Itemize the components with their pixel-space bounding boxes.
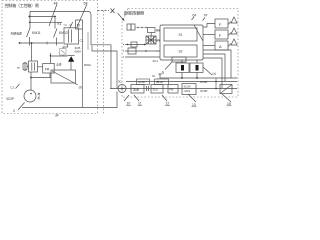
svg-text:600A: 600A xyxy=(84,63,91,67)
svg-text:3C0P: 3C0P xyxy=(6,97,14,101)
thermal relay FR xyxy=(43,63,55,73)
diode VD1 triangle xyxy=(68,56,74,62)
contact KM2 xyxy=(54,29,58,38)
terminal ticks big box left xyxy=(157,31,161,51)
node dot feed QF1 xyxy=(31,42,33,44)
svg-text:14: 14 xyxy=(212,72,216,76)
svg-text:控制箱（工控箱）侧: 控制箱（工控箱）侧 xyxy=(5,2,39,8)
svg-text:机: 机 xyxy=(38,96,41,100)
wire y56 link xyxy=(50,53,52,63)
leader diagonal ref 4 xyxy=(49,4,57,26)
transformer T1 outer xyxy=(64,28,79,44)
tick marks xyxy=(147,86,149,91)
node dot row2 xyxy=(215,88,217,90)
module drops to bus xyxy=(182,73,197,79)
svg-text:3C1: 3C1 xyxy=(153,59,159,63)
display box F3 xyxy=(215,41,228,50)
label box row1 b xyxy=(155,79,169,85)
leader diagonal ref 5 xyxy=(77,4,87,27)
svg-text:600A: 600A xyxy=(75,50,82,54)
terminal ticks left border xyxy=(123,45,126,58)
output comp row2 xyxy=(220,85,232,94)
main power row y88.5 xyxy=(110,88,237,90)
breaker box QF1 xyxy=(29,61,38,72)
setting box link xyxy=(156,29,160,31)
svg-text:7#: 7# xyxy=(204,14,208,18)
node dot L3 xyxy=(29,21,31,23)
svg-text:13: 13 xyxy=(192,103,196,107)
fuse box FU2 xyxy=(76,20,83,29)
wire drop phase B xyxy=(54,17,56,29)
inner module S1 xyxy=(164,28,197,41)
bottom leader 11 xyxy=(134,95,139,101)
svg-text:ta: ta xyxy=(17,66,20,70)
node dots row1 xyxy=(157,81,159,83)
wire motor column xyxy=(30,72,32,90)
svg-text:变频控制器侧: 变频控制器侧 xyxy=(124,11,145,16)
svg-text:S1: S1 xyxy=(179,33,183,37)
wire L3 bus xyxy=(30,21,62,23)
bottom leader 10 xyxy=(124,95,129,101)
svg-text:3C0P: 3C0P xyxy=(200,80,208,84)
wire setting to pot xyxy=(150,33,152,37)
short vertical x88 xyxy=(87,32,89,50)
wires to F boxes xyxy=(203,24,215,28)
node dot y51 xyxy=(145,50,147,52)
filter box row2 c xyxy=(168,85,178,94)
svg-text:C1: C1 xyxy=(80,39,84,43)
svg-text:SC/M: SC/M xyxy=(184,85,192,89)
control cabinet enclosure (left dashed box) xyxy=(2,1,98,114)
svg-text:10: 10 xyxy=(127,102,131,106)
svg-text:3C0: 3C0 xyxy=(153,88,159,92)
box on y51 xyxy=(128,48,136,54)
display box F1 xyxy=(215,19,228,28)
leader left of modules xyxy=(165,62,172,70)
bottom connector box xyxy=(172,57,186,62)
main inverter unit outer box xyxy=(160,25,203,60)
setting box xyxy=(148,28,156,33)
label box row1 a xyxy=(137,79,150,85)
label 2 leader xyxy=(18,103,25,111)
display box F2 xyxy=(215,30,228,39)
horizontal bus y78 xyxy=(160,74,237,78)
svg-text:5#: 5# xyxy=(84,2,88,6)
svg-text:MC1: MC1 xyxy=(185,89,191,93)
potentiometer RP xyxy=(146,36,156,44)
node dot feed xyxy=(19,42,21,44)
contact KM1a xyxy=(27,28,31,37)
wire L2 feed xyxy=(92,46,117,89)
svg-text:≡b: ≡b xyxy=(79,86,83,90)
svg-text:3C0P: 3C0P xyxy=(138,80,146,84)
indicator triangle 1 xyxy=(231,17,237,23)
transformer T1 inner xyxy=(69,30,72,43)
svg-text:12: 12 xyxy=(166,102,170,106)
node dots on y78 xyxy=(181,77,183,79)
node dot L2 right xyxy=(54,16,56,18)
wire y51 row xyxy=(126,50,160,52)
wire diode down xyxy=(70,62,72,70)
dotted wire to setting box xyxy=(135,27,147,29)
svg-text:全桥: 全桥 xyxy=(56,63,62,67)
filter box row2 a xyxy=(131,85,144,94)
leader right of modules xyxy=(203,67,212,75)
svg-text:11: 11 xyxy=(138,102,142,106)
wire drop phase A xyxy=(29,11,31,28)
contact K3 xyxy=(70,22,73,29)
svg-text:6#: 6# xyxy=(193,14,197,18)
wire y57 row xyxy=(126,56,160,58)
svg-text:3C: 3C xyxy=(118,80,122,84)
bottom leader 13 xyxy=(188,94,196,102)
diagonal inside main box xyxy=(194,25,203,41)
rectifier box VC xyxy=(60,49,67,56)
svg-text:KM11: KM11 xyxy=(32,31,41,35)
box on y44 xyxy=(131,42,137,47)
svg-text:FR: FR xyxy=(45,68,50,72)
svg-text:S2: S2 xyxy=(179,50,183,54)
wire feed to QF1 xyxy=(31,43,33,61)
svg-text:L1: L1 xyxy=(11,86,15,90)
svg-text:滤波: 滤波 xyxy=(133,87,139,92)
FR stub down xyxy=(49,73,51,78)
diode VD1 cathode bar xyxy=(68,54,75,56)
svg-text:3C0P: 3C0P xyxy=(156,80,164,84)
svg-text:外部电源: 外部电源 xyxy=(11,31,22,36)
wire bottom feed xyxy=(19,42,63,44)
indicator triangle 3 xyxy=(231,39,237,45)
wire pot to main box xyxy=(156,39,160,41)
svg-text:K1: K1 xyxy=(58,22,62,26)
wire L2 bus xyxy=(30,16,55,18)
node dot L2 xyxy=(29,16,31,18)
feedback wire row y81.5 xyxy=(126,81,237,83)
contactor box row2 xyxy=(182,84,196,95)
wire L1 bus xyxy=(30,11,111,88)
svg-text:15: 15 xyxy=(227,102,231,106)
right box: input terminal blocks xyxy=(127,24,131,30)
wire motor bottom y107 xyxy=(22,92,117,108)
filter box row2 b xyxy=(151,85,163,94)
inner module S2 xyxy=(164,45,197,57)
svg-text:3C0P: 3C0P xyxy=(200,89,208,93)
fuse Ta xyxy=(23,63,27,70)
svg-text:2: 2 xyxy=(13,109,15,113)
output module U1 xyxy=(176,63,189,73)
reactor circle xyxy=(118,85,126,93)
bottom leader 14 xyxy=(222,94,231,102)
output module U2 xyxy=(190,63,203,73)
inner dashed boundary xyxy=(103,11,105,114)
filter box with diagonal xyxy=(51,70,76,83)
bottom leader 12 xyxy=(162,95,167,101)
ref label 1 corner xyxy=(98,10,110,12)
wire y77 xyxy=(31,77,51,79)
svg-text:4#: 4# xyxy=(54,2,58,6)
leader to right box corner xyxy=(118,13,125,21)
indicator triangle 2 xyxy=(231,28,237,34)
link wires component row xyxy=(27,66,43,68)
svg-text:3#: 3# xyxy=(55,114,59,118)
svg-text:PE: PE xyxy=(170,88,174,92)
wires main box to output modules xyxy=(182,60,197,63)
svg-text:Δ: Δ xyxy=(162,70,165,75)
svg-text:KM12: KM12 xyxy=(59,31,68,35)
motor M circle xyxy=(24,90,36,102)
right side wires bending down xyxy=(203,50,231,78)
wire transformer secondary xyxy=(63,44,68,49)
wire y44 row xyxy=(126,44,146,46)
node dot motor column xyxy=(30,77,32,79)
wire M2 output down xyxy=(81,29,83,108)
inverter controller enclosure (right dashed box) xyxy=(122,9,238,98)
label L1 leader xyxy=(16,84,20,89)
